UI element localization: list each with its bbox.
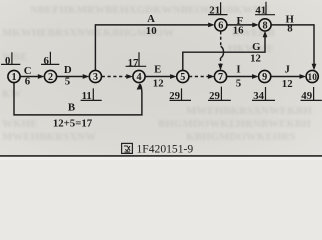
svg-text:9: 9 (262, 72, 267, 83)
svg-text:2: 2 (48, 72, 53, 83)
svg-text:KW: KW (2, 88, 22, 100)
time mark line ES=11 node 3 (81, 88, 102, 100)
arrowhead dummy 6-7 into node 7 top (218, 64, 223, 71)
node 8 (259, 19, 271, 32)
arrowhead dummy into node 7 (208, 74, 215, 79)
svg-text:10: 10 (308, 73, 318, 83)
wire activity H path 8-10 (right and down) (271, 25, 314, 66)
faint bleed-through text texture (2, 4, 312, 143)
wire activity A path 3-6 (up and right) (95, 25, 210, 70)
wire dummy arrow 3-4 (dashed) (102, 76, 129, 78)
wire activity J arrow 9-10 (271, 76, 302, 78)
arrowhead G into node 8 bottom (263, 31, 268, 38)
wire dummy 6-7 (dashed with hop over G) (220, 31, 222, 46)
wire activity G path 5-8 (up, right, up) (183, 36, 265, 71)
node 9 (259, 70, 271, 83)
wire activity D arrow 2-3 (57, 76, 85, 78)
svg-text:12: 12 (250, 53, 261, 65)
svg-text:J: J (284, 64, 290, 76)
svg-text:5: 5 (236, 77, 241, 89)
arrowhead J into node 10 (300, 74, 307, 79)
svg-text:49: 49 (301, 90, 312, 102)
svg-text:41: 41 (255, 5, 266, 17)
arrowhead H into node 10 top (312, 64, 317, 71)
svg-text:29: 29 (169, 90, 180, 102)
time mark line ES=29 node 7 (208, 87, 231, 101)
time mark line ES=34 node 9 (252, 87, 275, 100)
svg-text:12: 12 (153, 77, 164, 89)
svg-text:29: 29 (209, 90, 220, 102)
time mark line ES=49 node 10 (301, 87, 322, 100)
svg-text:1: 1 (11, 72, 16, 83)
svg-text:12: 12 (282, 78, 293, 90)
wire activity F arrow 6-8 (227, 24, 254, 26)
node 5 (177, 70, 189, 83)
time mark line ES=29 node 5 (170, 88, 192, 100)
svg-text:WKHE: WKHE (2, 118, 37, 130)
svg-text:KBHGMDOWKEHRS: KBHGMDOWKEHRS (186, 131, 295, 143)
node 6 (215, 19, 227, 32)
arrowhead C into node 2 (38, 74, 45, 79)
wire activity E arrow 4-5 (145, 76, 172, 78)
node 10 (306, 70, 318, 83)
svg-text:8: 8 (287, 23, 293, 35)
time mark line ES=21 node 6 (208, 2, 228, 14)
svg-text:BHGMDOWKEHRNBWEKBH: BHGMDOWKEHRNBWEKBH (158, 118, 311, 130)
time mark line ES=41 node 8 (255, 2, 275, 15)
svg-text:5: 5 (65, 76, 70, 88)
arrowhead A into node 6 (208, 23, 215, 28)
svg-text:6: 6 (25, 76, 31, 88)
svg-text:6: 6 (43, 55, 49, 67)
node 3 (89, 70, 101, 83)
wire activity B path 1-4 (down, right, up with curve) (14, 83, 142, 115)
bottom page rule (0, 155, 322, 157)
wire activity I arrow 7-9 (227, 76, 254, 78)
svg-text:MWEHBKRSXNWEKBH: MWEHBKRSXNWEKBH (186, 105, 312, 117)
caption glyph 图 (drawn) (122, 143, 133, 153)
page background (0, 0, 322, 157)
node 2 (44, 70, 56, 83)
svg-text:G: G (252, 41, 261, 53)
arrowhead I into node 9 (252, 74, 259, 79)
time mark line ES=6 node 2 (41, 52, 59, 65)
svg-text:12+5=17: 12+5=17 (53, 118, 93, 130)
svg-text:I: I (236, 64, 240, 76)
svg-text:3: 3 (93, 72, 98, 83)
node 1 (8, 70, 20, 83)
svg-text:10: 10 (146, 25, 157, 37)
svg-text:21: 21 (209, 5, 220, 17)
wire activity C arrow 1-2 (20, 76, 39, 78)
svg-text:5: 5 (180, 72, 185, 83)
svg-text:17: 17 (128, 57, 139, 69)
svg-text:B: B (68, 101, 75, 113)
svg-text:7: 7 (218, 72, 223, 83)
svg-text:4: 4 (136, 72, 141, 83)
arrowhead dummy into node 4 (126, 74, 133, 79)
svg-text:MWEHBKRSXNW: MWEHBKRSXNW (2, 131, 96, 143)
svg-text:D: D (64, 64, 72, 76)
node 7 (214, 70, 226, 83)
arrowhead D into node 3 (83, 74, 90, 79)
wire dummy arrow 5-7 (dashed) (189, 76, 210, 78)
svg-text:11: 11 (82, 90, 92, 102)
svg-text:8: 8 (262, 21, 267, 32)
arrowhead F into node 8 (252, 23, 259, 28)
arrowhead B into node 4 bottom (137, 83, 142, 89)
svg-text:A: A (147, 13, 155, 25)
svg-text:16: 16 (233, 24, 244, 36)
svg-text:34: 34 (253, 90, 264, 102)
svg-text:0: 0 (5, 55, 10, 67)
svg-text:E: E (154, 64, 161, 76)
svg-text:1F420151-9: 1F420151-9 (137, 143, 194, 156)
svg-text:6: 6 (218, 21, 223, 32)
time mark line ES=0 node 1 (1, 52, 20, 64)
time mark line ES=17 node 4 (126, 52, 147, 66)
arrowhead E into node 5 (170, 74, 177, 79)
node 4 (133, 70, 145, 83)
